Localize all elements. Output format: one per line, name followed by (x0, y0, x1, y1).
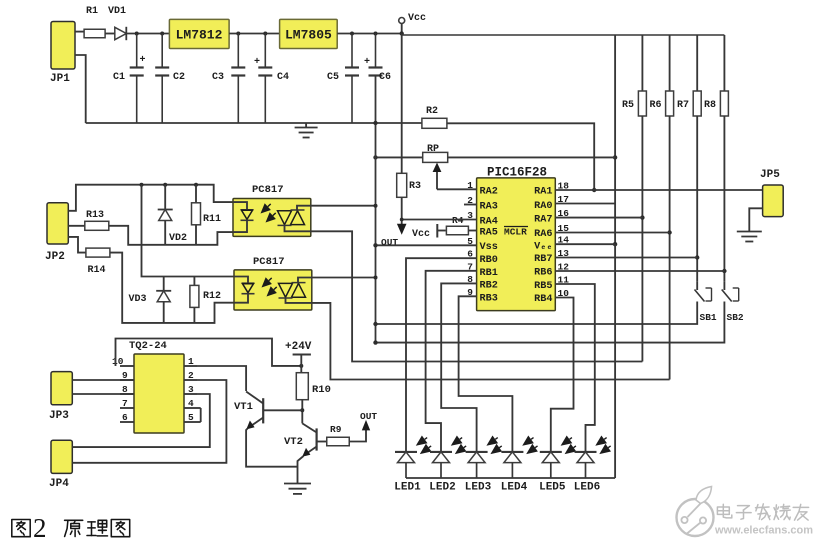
resistor R13 (85, 221, 109, 230)
svg-text:RA2: RA2 (480, 187, 498, 198)
svg-text:PC817: PC817 (253, 256, 285, 268)
diode VD3 (156, 277, 171, 323)
svg-text:1: 1 (467, 180, 473, 191)
capacitor C5 (345, 34, 359, 124)
junction ground trunk at ground rail (373, 121, 377, 125)
pin 17 RA0 wire to Vcc column (555, 203, 615, 205)
wire Vcc drop to Vdd pin14 column (614, 35, 616, 244)
svg-text:2: 2 (467, 195, 473, 206)
svg-text:C3: C3 (212, 72, 224, 83)
junction left rail R11 (194, 183, 198, 187)
pin 18 RA1 wire to JP5 (555, 189, 762, 191)
voltage regulator LM7805 (280, 19, 338, 48)
svg-text:LED6: LED6 (574, 482, 600, 494)
svg-text:C6: C6 (379, 72, 391, 83)
svg-text:JP1: JP1 (50, 73, 70, 85)
svg-text:RB4: RB4 (534, 294, 552, 305)
svg-text:R12: R12 (203, 291, 221, 302)
junction opto2 ground (374, 276, 378, 280)
relay left pin numbers (112, 356, 128, 423)
junction opto1 ground (374, 204, 378, 208)
junction SB1 ground (373, 322, 377, 326)
svg-text:8: 8 (467, 274, 473, 285)
pushbutton SB2 (722, 281, 739, 308)
wire R1 to VD1 (105, 33, 115, 35)
svg-text:R4: R4 (452, 215, 464, 226)
svg-text:10: 10 (112, 356, 124, 367)
svg-text:R5: R5 (622, 100, 634, 111)
wire opto2 emitter to ground trunk (312, 277, 376, 279)
svg-text:RA5: RA5 (480, 228, 498, 239)
pin 16 RA7 wire to R5 column (555, 217, 642, 219)
svg-text:SB1: SB1 (700, 312, 717, 323)
wire VT1 emitter to ground node (246, 429, 297, 467)
svg-text:MCLR: MCLR (504, 227, 527, 238)
junction Vdd pin 14 (613, 242, 617, 246)
svg-text:9: 9 (467, 287, 473, 298)
svg-text:C1: C1 (113, 72, 125, 83)
junction C5 top (350, 32, 354, 36)
svg-text:JP5: JP5 (760, 169, 780, 181)
LED3 (466, 436, 503, 479)
diode VD1 (115, 27, 127, 40)
pin 1 RA2 wire to RP wiper (437, 188, 477, 190)
label MCLR with overline (504, 227, 528, 238)
pushbutton SB1 (695, 281, 712, 308)
svg-text:C5: C5 (327, 72, 339, 83)
wire JP2 to R14 (68, 237, 85, 253)
junction left rail drop (140, 183, 144, 187)
wire LM7812 to LM7805 (229, 33, 280, 35)
svg-text:R7: R7 (677, 100, 689, 111)
LED2 (430, 436, 467, 479)
optocoupler U3 PC817 (lower) (234, 270, 312, 310)
ground symbol below LM7805 (295, 123, 318, 138)
caption figure title: tu 2 yuan li tu (12, 513, 130, 543)
potentiometer RP (423, 152, 448, 189)
resistor R6 with pullup column (666, 35, 674, 380)
LED4 (501, 436, 538, 479)
wire SB2 to ground row (376, 309, 725, 343)
wire R14 to opto2 cathode rail (110, 253, 234, 323)
wire SB1 to ground row (376, 309, 698, 325)
svg-text:R9: R9 (330, 424, 342, 435)
junction RA4 on R3 column (400, 218, 404, 222)
node Vcc terminal (399, 18, 405, 36)
svg-text:RB5: RB5 (534, 281, 552, 292)
wire relay pin1 to VT1 collector (197, 366, 246, 391)
capacitor C1 (130, 34, 146, 124)
resistor R4 (446, 226, 468, 235)
LED5 (540, 436, 577, 479)
wire relay pin10 to +24V (116, 339, 302, 367)
svg-text:LED4: LED4 (501, 482, 528, 494)
svg-text:OUT: OUT (381, 237, 398, 248)
pin 14 Vdd wire to Vcc column (555, 243, 615, 245)
svg-text:LED5: LED5 (539, 482, 566, 494)
svg-text:4: 4 (188, 398, 194, 409)
pin 9 RB3 wire to LED4 column (459, 296, 513, 452)
junction +24V stem (299, 364, 303, 368)
pin 10 RB4 wire to LED5 column (551, 298, 574, 452)
wire JP2 to R13 (68, 225, 85, 227)
svg-text:LED2: LED2 (429, 482, 455, 494)
svg-text:Vcc: Vcc (412, 229, 430, 240)
wire R2 right to RA1 column (447, 123, 594, 190)
svg-text:RA4: RA4 (480, 217, 498, 228)
pin 15 RA6 wire to R6 column (555, 232, 669, 234)
svg-text:7: 7 (122, 398, 128, 409)
wire R9 to OUT arrow (349, 424, 366, 442)
wire left rail drop to opto2 anode rail (142, 185, 235, 277)
capacitor C4 (254, 34, 272, 124)
pin 2 RA3 stub (464, 204, 477, 206)
capacitor C3 (231, 34, 245, 124)
junction C4 top (263, 32, 267, 36)
junction SB2 ground (373, 340, 377, 344)
connector JP3 (51, 372, 72, 405)
svg-text:R13: R13 (86, 210, 104, 221)
svg-text:RB1: RB1 (480, 268, 498, 279)
svg-text:R1: R1 (86, 6, 98, 17)
transistor VT1 (246, 392, 302, 430)
svg-text:RB2: RB2 (480, 281, 498, 292)
pin numbers 1-9 (467, 180, 473, 298)
svg-text:VD3: VD3 (129, 294, 147, 305)
junction R5 to RA7 pin16 (640, 215, 644, 219)
wire JP4 to relay pin2 (72, 380, 226, 463)
svg-text:R8: R8 (704, 100, 716, 111)
resistor R1 (84, 29, 105, 38)
LED6 (575, 436, 612, 479)
svg-text:5: 5 (467, 236, 473, 247)
junction C1 top (135, 32, 139, 36)
svg-text:R2: R2 (426, 106, 438, 117)
resistor R3 (397, 173, 407, 197)
watermark elecfans logo (677, 487, 714, 537)
svg-text:R10: R10 (312, 384, 331, 396)
junction C3 top (236, 32, 240, 36)
wire opto1 emitter to ground trunk (311, 205, 376, 207)
svg-text:LM7812: LM7812 (176, 28, 223, 43)
svg-text:RA0: RA0 (534, 201, 552, 212)
svg-text:Vcc: Vcc (408, 13, 426, 24)
voltage regulator LM7812 (169, 19, 229, 48)
svg-text:+: + (364, 57, 370, 68)
junction R6 to RA6 pin15 (667, 230, 671, 234)
svg-text:RB0: RB0 (480, 255, 498, 266)
transistor VT2 (302, 423, 327, 456)
resistor R8 with column to SB2 (720, 35, 728, 281)
svg-text:R11: R11 (203, 214, 221, 225)
resistor R9 (327, 437, 350, 446)
svg-text:OUT: OUT (360, 411, 377, 422)
svg-text:Vₑₑ: Vₑₑ (534, 242, 552, 253)
resistor R10 (296, 373, 308, 400)
pin 12 RB6 wire to SB2 column (555, 270, 724, 272)
svg-text:RA3: RA3 (480, 202, 498, 213)
wire Vcc column down to R3 (401, 34, 403, 174)
svg-text:C4: C4 (277, 72, 289, 83)
wire VD1 to LM7812 input (126, 33, 169, 35)
capacitor C6 (its lower lead continues as ground trunk) (364, 34, 383, 76)
junction R8 to RB6 pin12 (722, 269, 726, 273)
svg-text:RB6: RB6 (534, 268, 552, 279)
relay pin stubs right (184, 366, 201, 422)
svg-text:6: 6 (467, 249, 473, 260)
wire RP right to Vcc column (448, 156, 615, 158)
resistor R14 (86, 248, 110, 257)
pin numbers 18-10 (558, 181, 570, 300)
watermark text dian zi fa shao you (717, 504, 808, 520)
resistor R11 (192, 185, 201, 245)
wire JP3 to relay pin8 (72, 393, 134, 395)
junction C6 top (374, 32, 378, 36)
svg-text:+: + (254, 57, 260, 68)
svg-text:JP4: JP4 (49, 478, 69, 490)
pin 8 RB2 wire to LED3 column (441, 283, 476, 452)
svg-text:2: 2 (33, 513, 47, 543)
svg-text:RA1: RA1 (534, 187, 552, 198)
svg-text:3: 3 (188, 384, 194, 395)
svg-text:TQ2-24: TQ2-24 (129, 340, 167, 352)
svg-text:VD1: VD1 (108, 6, 126, 17)
svg-text:LM7805: LM7805 (285, 28, 332, 43)
wire JP1 to R1 (75, 31, 84, 33)
wire opto1 collector to R5 pullup row (311, 231, 643, 361)
resistor R12 (190, 277, 199, 323)
wire Vcc top rail (402, 34, 725, 36)
wire R3 to OUT arrow (401, 197, 403, 226)
junction RP left on ground trunk (373, 155, 377, 159)
svg-text:1: 1 (188, 356, 194, 367)
wire Vcc column down to LED common rail (614, 244, 616, 478)
ground symbol at JP5 (737, 232, 762, 242)
svg-text:JP2: JP2 (45, 251, 65, 263)
ground rail under capacitors (86, 122, 422, 124)
connector JP4 (51, 440, 72, 473)
relay pin stubs left (120, 366, 134, 422)
wire JP4 to relay pin3 (72, 394, 210, 447)
svg-text:RA7: RA7 (534, 215, 552, 226)
svg-text:+24V: +24V (285, 341, 312, 353)
node +24V supply bar (293, 355, 311, 373)
wire opto2 collector to R6 pullup row (312, 303, 670, 380)
svg-text:5: 5 (188, 412, 194, 423)
wire R10 to VT1 base / VT2 collector node (301, 400, 303, 424)
junction C2 top (160, 32, 164, 36)
svg-text:SB2: SB2 (727, 312, 744, 323)
svg-text:VD2: VD2 (169, 233, 187, 244)
wire JP1 lower pin to ground rail (75, 55, 86, 123)
wire LM7805 to Vcc node (337, 33, 402, 35)
junction Vss on ground trunk (373, 243, 377, 247)
pin 3 RA4 wire to R3 output column (402, 219, 477, 221)
svg-text:+: + (140, 55, 146, 66)
pin 11 RB5 wire to LED6 column (555, 284, 595, 452)
wire JP3 to relay pin9 (72, 379, 134, 381)
optocoupler U2 PC817 (upper) (233, 199, 311, 237)
wire JP5 to ground (749, 208, 762, 231)
wire R13 to opto1 cathode rail (109, 226, 233, 245)
chip left pin labels (480, 187, 498, 305)
ground symbol below VT2 (284, 484, 311, 494)
svg-text:VT1: VT1 (234, 401, 253, 413)
svg-text:RB7: RB7 (534, 254, 552, 265)
wire R4 to MCLR pin4 (468, 230, 476, 232)
LED common anode rail (406, 477, 615, 479)
chip right pin labels (534, 187, 552, 306)
microcontroller U1 PIC16F28 (477, 178, 556, 311)
svg-text:VT2: VT2 (284, 436, 303, 448)
wire VT2 emitter to ground (298, 456, 304, 483)
svg-text:3: 3 (467, 210, 473, 221)
svg-text:LED1: LED1 (394, 482, 421, 494)
svg-text:2: 2 (188, 370, 194, 381)
svg-text:7: 7 (467, 261, 473, 272)
node OUT arrow (R3 output) (397, 224, 407, 235)
connector JP2 (47, 203, 68, 244)
junction R2 column to RA1 pin18 row (592, 188, 596, 192)
junction left rail VD2 (163, 183, 167, 187)
pin 13 RB7 wire to SB1 column (555, 257, 697, 259)
connector JP5 (763, 185, 784, 217)
svg-text:RB3: RB3 (480, 294, 498, 305)
svg-text:R14: R14 (88, 265, 106, 276)
pin 6 RB0 wire to LED1 column (406, 258, 477, 452)
svg-text:PIC16F28: PIC16F28 (487, 166, 547, 180)
svg-text:RA6: RA6 (534, 229, 552, 240)
junction R7 to RB7 pin13 (695, 255, 699, 259)
svg-text:Vss: Vss (480, 242, 498, 253)
junction RP wiper rail on Vcc column (613, 155, 617, 159)
svg-text:R6: R6 (650, 100, 662, 111)
relay TQ2-24 (134, 354, 184, 433)
svg-text:www.elecfans.com: www.elecfans.com (714, 525, 813, 537)
resistor R2 (422, 118, 447, 128)
junction VT1 base node (300, 408, 304, 412)
resistor R5 with pullup column (638, 35, 646, 362)
resistor R7 with column to SB1 (693, 35, 701, 281)
node OUT arrow at VT2 (362, 420, 370, 431)
power connector JP1 (51, 22, 75, 70)
wire JP2 to left rail (68, 185, 233, 211)
svg-text:PC817: PC817 (252, 184, 284, 196)
svg-text:C2: C2 (173, 72, 185, 83)
svg-text:6: 6 (122, 412, 128, 423)
svg-text:RP: RP (427, 144, 439, 155)
LED1 (395, 436, 432, 479)
diode VD2 (158, 185, 173, 245)
wire Vss pin5 to ground trunk (376, 244, 477, 246)
wire RP left to ground trunk (376, 156, 423, 158)
capacitor C2 (155, 34, 169, 124)
ground trunk vertical (375, 76, 377, 343)
svg-text:JP3: JP3 (49, 410, 69, 422)
pin 7 RB1 wire to LED2 column (426, 271, 477, 452)
relay right pin numbers (188, 356, 194, 423)
svg-text:LED3: LED3 (465, 482, 492, 494)
node Vcc terminal bar at R4 (437, 224, 446, 238)
svg-text:R3: R3 (409, 181, 421, 192)
